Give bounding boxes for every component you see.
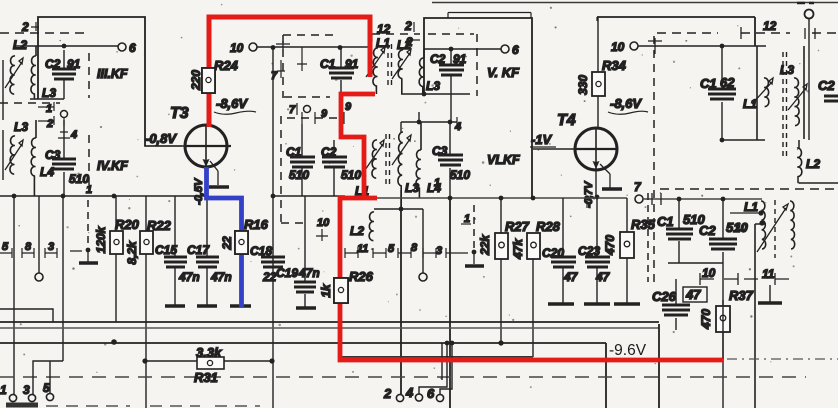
svg-text:IV.KF: IV.KF bbox=[97, 159, 128, 173]
svg-text:7: 7 bbox=[289, 104, 296, 116]
svg-text:C26: C26 bbox=[652, 289, 677, 304]
svg-text:L2: L2 bbox=[806, 157, 820, 171]
svg-text:22k: 22k bbox=[478, 234, 492, 256]
base wire bbox=[145, 145, 185, 147]
svg-text:-0,8V: -0,8V bbox=[145, 131, 177, 146]
long node wire bbox=[345, 197, 627, 199]
bottom edge marks bbox=[6, 403, 38, 408]
svg-text:C15: C15 bbox=[155, 243, 177, 257]
svg-text:L2: L2 bbox=[350, 224, 364, 238]
svg-text:22: 22 bbox=[220, 236, 234, 251]
svg-text:C1: C1 bbox=[657, 214, 674, 229]
svg-text:510: 510 bbox=[450, 168, 470, 182]
dashed shield top bbox=[657, 32, 718, 34]
svg-text:R16: R16 bbox=[244, 217, 269, 232]
svg-text:T3: T3 bbox=[170, 105, 189, 122]
svg-text:L1: L1 bbox=[743, 97, 757, 111]
svg-text:470: 470 bbox=[603, 235, 617, 256]
top wire of VI.KF bbox=[401, 121, 457, 123]
svg-text:7: 7 bbox=[271, 70, 278, 82]
terminal 6 bbox=[118, 43, 126, 51]
svg-text:R24: R24 bbox=[214, 58, 239, 73]
chassis at emitter bbox=[210, 161, 218, 185]
svg-text:10: 10 bbox=[735, 222, 748, 234]
wire bbox=[16, 45, 118, 47]
svg-text:L2: L2 bbox=[13, 38, 27, 52]
svg-text:4: 4 bbox=[405, 385, 414, 400]
node junction bbox=[62, 44, 67, 49]
wire bbox=[2, 60, 4, 120]
dashed shield V.KF left bbox=[283, 35, 338, 98]
svg-text:11: 11 bbox=[762, 267, 775, 281]
primary coil L1 bbox=[373, 48, 378, 94]
svg-text:10: 10 bbox=[611, 40, 625, 54]
svg-text:R31: R31 bbox=[194, 370, 218, 385]
base wire bbox=[533, 148, 575, 150]
svg-text:9: 9 bbox=[345, 101, 352, 113]
bus lines bbox=[0, 321, 659, 323]
svg-text:12: 12 bbox=[763, 19, 777, 33]
svg-text:R28: R28 bbox=[536, 219, 561, 234]
ground right bbox=[769, 285, 771, 302]
svg-text:5: 5 bbox=[2, 241, 9, 253]
svg-text:3: 3 bbox=[48, 241, 54, 253]
svg-text:C19: C19 bbox=[276, 266, 298, 280]
right transformer solid box bbox=[722, 46, 804, 140]
svg-text:L3: L3 bbox=[426, 79, 440, 93]
dashed IV box bbox=[0, 102, 60, 104]
top right terminal bbox=[805, 10, 814, 19]
svg-text:-9.6V: -9.6V bbox=[609, 342, 647, 359]
svg-text:47n: 47n bbox=[298, 266, 320, 280]
svg-text:2: 2 bbox=[46, 118, 53, 130]
svg-text:8,2k: 8,2k bbox=[125, 240, 139, 265]
dashed with ground bbox=[87, 200, 89, 248]
core dashes bbox=[386, 134, 390, 186]
svg-text:6: 6 bbox=[427, 386, 435, 401]
svg-text:III.KF: III.KF bbox=[97, 67, 128, 81]
svg-text:9: 9 bbox=[321, 108, 328, 120]
svg-text:2: 2 bbox=[405, 35, 413, 49]
dashed shield bbox=[0, 32, 85, 34]
svg-text:L1: L1 bbox=[744, 200, 758, 214]
svg-text:10: 10 bbox=[317, 217, 330, 229]
svg-text:L3: L3 bbox=[780, 63, 794, 77]
trim arrow bbox=[5, 58, 23, 88]
svg-text:120k: 120k bbox=[94, 225, 108, 253]
svg-text:-0,5V: -0,5V bbox=[193, 177, 205, 205]
x450 vertical down bbox=[449, 198, 451, 408]
svg-text:510: 510 bbox=[289, 168, 309, 182]
svg-text:R34: R34 bbox=[602, 58, 627, 73]
emitter down bbox=[595, 169, 597, 197]
svg-text:C2: C2 bbox=[699, 223, 716, 238]
svg-text:47: 47 bbox=[685, 287, 701, 302]
svg-text:L3: L3 bbox=[14, 120, 28, 134]
svg-text:2: 2 bbox=[404, 19, 412, 33]
svg-text:2: 2 bbox=[21, 20, 29, 34]
svg-text:1: 1 bbox=[0, 383, 7, 397]
svg-text:T4: T4 bbox=[557, 112, 576, 129]
svg-text:L3: L3 bbox=[42, 86, 56, 100]
svg-text:6: 6 bbox=[512, 43, 519, 57]
svg-text:L3: L3 bbox=[405, 181, 419, 195]
svg-text:V. KF: V. KF bbox=[487, 65, 520, 80]
svg-text:-8,6V: -8,6V bbox=[216, 96, 248, 111]
resistor R26 body over red bbox=[334, 278, 348, 303]
svg-text:-8,6V: -8,6V bbox=[610, 96, 642, 111]
top wire bbox=[597, 17, 755, 46]
svg-text:47n: 47n bbox=[210, 270, 232, 284]
svg-text:-1V: -1V bbox=[531, 132, 553, 147]
long vertical line bbox=[272, 47, 274, 408]
bottom wire bbox=[0, 195, 207, 197]
svg-text:8: 8 bbox=[25, 241, 32, 253]
staircase to terminals 1 3 5 bbox=[33, 361, 63, 394]
V.KF solid box bbox=[424, 18, 532, 197]
svg-text:2: 2 bbox=[383, 386, 392, 401]
svg-text:8: 8 bbox=[411, 242, 418, 254]
svg-text:10: 10 bbox=[702, 266, 716, 280]
coil L3 bbox=[31, 46, 36, 99]
shield box III.KF bbox=[38, 17, 145, 146]
svg-text:R26: R26 bbox=[349, 269, 374, 284]
svg-text:L4: L4 bbox=[40, 165, 54, 179]
coil L3 bbox=[419, 49, 424, 94]
coil L3 (IV.KF tunable) bbox=[10, 136, 15, 174]
lower dashed box bbox=[647, 193, 649, 282]
svg-text:47: 47 bbox=[563, 270, 579, 284]
svg-text:47: 47 bbox=[595, 270, 611, 284]
svg-text:11: 11 bbox=[357, 243, 368, 255]
svg-text:3: 3 bbox=[436, 245, 442, 257]
verticals bbox=[13, 196, 15, 394]
svg-text:510: 510 bbox=[69, 172, 89, 186]
svg-text:4: 4 bbox=[70, 129, 77, 141]
svg-text:6: 6 bbox=[129, 41, 136, 55]
dashed with ground bbox=[473, 205, 475, 250]
svg-text:510: 510 bbox=[341, 168, 361, 182]
dashed shield VI.KF bbox=[281, 116, 303, 223]
blue highlighted emitter trace bbox=[207, 167, 242, 307]
core dashes bbox=[783, 52, 787, 160]
svg-text:VLKF: VLKF bbox=[487, 153, 520, 167]
svg-text:220: 220 bbox=[189, 70, 203, 91]
svg-text:1: 1 bbox=[434, 177, 440, 189]
core dashes bbox=[388, 44, 392, 86]
svg-text:R27: R27 bbox=[505, 219, 530, 234]
chassis at emitter bbox=[600, 164, 610, 188]
dashed bus bbox=[0, 376, 806, 378]
L3 coil bbox=[794, 78, 799, 126]
dashed bottom of upper shield bbox=[660, 188, 838, 190]
tick on wire bbox=[648, 38, 662, 54]
svg-text:12: 12 bbox=[377, 22, 391, 36]
svg-text:C2: C2 bbox=[818, 78, 835, 93]
svg-text:R20: R20 bbox=[115, 217, 140, 232]
page border line bbox=[432, 2, 838, 4]
svg-text:R35: R35 bbox=[631, 217, 656, 232]
dash-dot right of red bbox=[727, 358, 838, 360]
svg-text:-0,7V: -0,7V bbox=[583, 180, 595, 208]
svg-text:1: 1 bbox=[464, 213, 470, 225]
resistor R24 body over red bbox=[202, 68, 215, 93]
svg-text:5: 5 bbox=[388, 243, 395, 255]
wire under red bus bbox=[341, 356, 533, 358]
red highlighted supply trace bbox=[209, 17, 370, 127]
coil L4 bbox=[31, 120, 36, 196]
svg-text:330: 330 bbox=[576, 75, 590, 95]
svg-text:R37: R37 bbox=[729, 288, 754, 303]
emitter arrow bbox=[203, 150, 210, 167]
grounding tick on top bbox=[276, 41, 290, 49]
svg-text:22: 22 bbox=[262, 270, 277, 284]
svg-text:47k: 47k bbox=[511, 238, 525, 260]
dashed inside bbox=[428, 33, 474, 35]
wire to transformer bbox=[257, 46, 372, 48]
secondary coil L2 bbox=[398, 50, 424, 94]
svg-text:10: 10 bbox=[230, 41, 244, 55]
coil L2 bbox=[10, 56, 15, 94]
node dots on emitter line bbox=[12, 194, 17, 199]
svg-text:1k: 1k bbox=[319, 283, 333, 298]
svg-text:47n: 47n bbox=[178, 270, 200, 284]
svg-text:1: 1 bbox=[46, 103, 52, 115]
svg-text:470: 470 bbox=[699, 309, 713, 330]
resistor R16 body over blue bbox=[235, 231, 248, 254]
wire with terminal 6 bbox=[424, 48, 501, 50]
